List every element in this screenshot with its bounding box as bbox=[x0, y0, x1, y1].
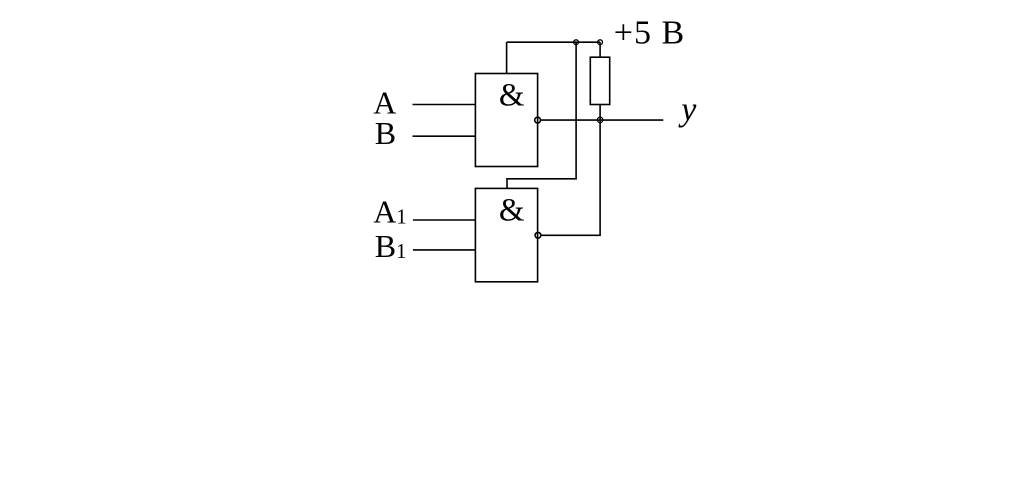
wire input B bbox=[413, 135, 476, 137]
gate DD2 (bottom NAND) body bbox=[475, 188, 537, 281]
wire input B1 bbox=[413, 249, 476, 251]
svg-text:B1: B1 bbox=[375, 228, 407, 264]
gate DD1 (top NAND) body bbox=[475, 74, 537, 167]
resistor R1 (pull-up) bbox=[590, 57, 609, 104]
wire output y bbox=[541, 119, 663, 121]
wire input A bbox=[413, 104, 476, 106]
node terminal on rail (left) bbox=[574, 40, 579, 45]
svg-text:A1: A1 bbox=[373, 194, 407, 230]
svg-text:B: B bbox=[375, 115, 396, 151]
svg-text:&: & bbox=[499, 192, 525, 228]
node terminal on rail (right) bbox=[598, 40, 603, 45]
wire rail to DD2 power bbox=[507, 42, 576, 188]
svg-text:&: & bbox=[499, 77, 525, 113]
wire +5V power rail bbox=[507, 41, 600, 43]
svg-text:+5 В: +5 В bbox=[614, 14, 685, 51]
gate DD1 output inversion bubble bbox=[535, 117, 541, 123]
wire rail to R1 top bbox=[599, 42, 601, 57]
wire input A1 bbox=[413, 219, 476, 221]
svg-text:y: y bbox=[678, 91, 697, 128]
gate DD2 output inversion bubble bbox=[535, 232, 541, 238]
wire DD1 power stub bbox=[506, 42, 508, 73]
wire R1 bottom to DD2 output bbox=[541, 105, 600, 236]
node junction at output bbox=[597, 117, 603, 123]
